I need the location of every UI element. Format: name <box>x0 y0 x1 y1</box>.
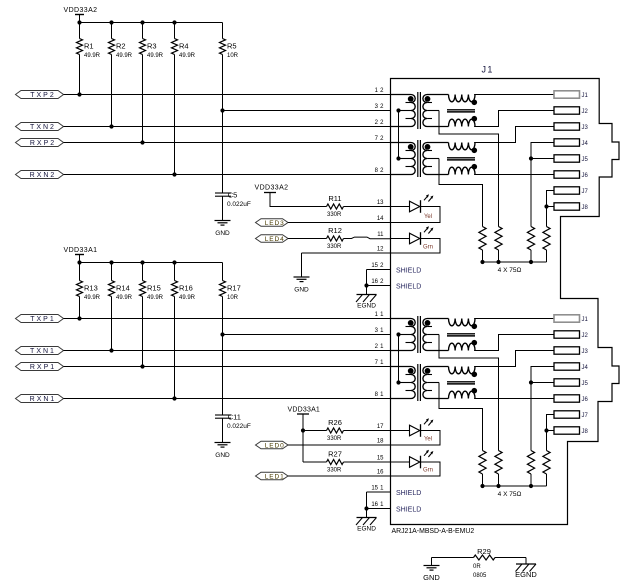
svg-text:Grn: Grn <box>423 468 433 474</box>
svg-text:J3: J3 <box>582 349 589 355</box>
svg-text:LED0: LED0 <box>265 442 285 449</box>
svg-text:J8: J8 <box>582 429 589 435</box>
svg-text:EGND: EGND <box>515 570 537 579</box>
svg-text:49.9R: 49.9R <box>116 295 133 301</box>
svg-text:R5: R5 <box>227 42 237 51</box>
svg-text:J5: J5 <box>582 381 589 387</box>
svg-text:SHIELD: SHIELD <box>396 284 421 291</box>
svg-text:0R: 0R <box>473 564 481 570</box>
svg-text:10R: 10R <box>227 295 239 301</box>
svg-text:R12: R12 <box>328 226 342 235</box>
svg-text:49.9R: 49.9R <box>84 295 101 301</box>
svg-text:LED1: LED1 <box>265 473 285 480</box>
svg-text:SHIELD: SHIELD <box>396 490 421 497</box>
svg-text:49.9R: 49.9R <box>147 295 164 301</box>
svg-text:16 1: 16 1 <box>371 502 384 508</box>
svg-text:J6: J6 <box>582 173 589 179</box>
svg-text:330R: 330R <box>327 244 342 250</box>
svg-text:GND: GND <box>423 573 440 582</box>
svg-text:GND: GND <box>215 452 230 459</box>
svg-text:10R: 10R <box>227 53 239 59</box>
svg-text:Grn: Grn <box>423 245 433 251</box>
svg-text:VDD33A2: VDD33A2 <box>255 185 289 192</box>
svg-text:49.9R: 49.9R <box>116 53 133 59</box>
svg-text:4 X 75Ω: 4 X 75Ω <box>498 267 522 274</box>
svg-text:Yel: Yel <box>424 437 432 443</box>
svg-text:49.9R: 49.9R <box>179 295 196 301</box>
svg-text:LED4: LED4 <box>265 236 285 243</box>
svg-text:SHIELD: SHIELD <box>396 507 421 514</box>
svg-text:14: 14 <box>377 216 384 222</box>
svg-text:LED3: LED3 <box>265 220 285 227</box>
svg-text:0805: 0805 <box>473 573 487 579</box>
svg-text:2 2: 2 2 <box>375 120 385 126</box>
svg-text:EGND: EGND <box>357 303 376 310</box>
svg-text:RXN2: RXN2 <box>30 172 57 179</box>
svg-text:VDD33A1: VDD33A1 <box>64 247 98 254</box>
svg-text:R26: R26 <box>328 418 342 427</box>
svg-text:15 1: 15 1 <box>371 486 384 492</box>
svg-text:16 2: 16 2 <box>371 279 384 285</box>
svg-text:330R: 330R <box>327 436 342 442</box>
svg-text:2 1: 2 1 <box>375 344 385 350</box>
svg-text:ARJ21A-MBSD-A-B-EMU2: ARJ21A-MBSD-A-B-EMU2 <box>392 528 475 535</box>
svg-text:R27: R27 <box>328 450 342 459</box>
svg-text:J4: J4 <box>582 365 589 371</box>
svg-text:EGND: EGND <box>357 526 376 533</box>
svg-text:J7: J7 <box>582 189 589 195</box>
svg-text:C5: C5 <box>228 191 238 200</box>
svg-text:J2: J2 <box>582 109 589 115</box>
svg-text:15 2: 15 2 <box>371 263 384 269</box>
svg-text:17: 17 <box>377 424 384 430</box>
svg-text:49.9R: 49.9R <box>147 53 164 59</box>
svg-text:15: 15 <box>377 456 384 462</box>
svg-text:R29: R29 <box>477 547 491 556</box>
svg-text:R13: R13 <box>84 284 98 293</box>
svg-text:R2: R2 <box>116 42 126 51</box>
svg-text:R17: R17 <box>227 284 241 293</box>
svg-text:16: 16 <box>377 470 384 476</box>
svg-text:J8: J8 <box>582 205 589 211</box>
svg-text:J6: J6 <box>582 397 589 403</box>
svg-text:330R: 330R <box>327 212 342 218</box>
svg-text:7 2: 7 2 <box>375 136 385 142</box>
svg-text:J1: J1 <box>482 65 494 75</box>
svg-text:GND: GND <box>294 287 309 294</box>
svg-text:J4: J4 <box>582 141 589 147</box>
svg-text:R4: R4 <box>179 42 189 51</box>
svg-text:J7: J7 <box>582 413 589 419</box>
svg-text:330R: 330R <box>327 468 342 474</box>
svg-text:R15: R15 <box>147 284 161 293</box>
svg-text:1 1: 1 1 <box>375 312 385 318</box>
svg-text:R3: R3 <box>147 42 157 51</box>
svg-text:TXP1: TXP1 <box>30 316 56 323</box>
svg-text:49.9R: 49.9R <box>179 53 196 59</box>
svg-text:11: 11 <box>377 232 384 238</box>
svg-text:3 1: 3 1 <box>375 328 385 334</box>
svg-text:RXP2: RXP2 <box>30 140 56 147</box>
svg-text:13: 13 <box>377 200 384 206</box>
svg-text:3 2: 3 2 <box>375 104 385 110</box>
svg-text:R14: R14 <box>116 284 130 293</box>
svg-text:TXP2: TXP2 <box>30 92 56 99</box>
svg-text:4 X 75Ω: 4 X 75Ω <box>498 491 522 498</box>
svg-text:49.9R: 49.9R <box>84 53 101 59</box>
svg-text:J1: J1 <box>582 93 589 99</box>
svg-text:RXP1: RXP1 <box>30 364 56 371</box>
svg-text:J2: J2 <box>582 333 589 339</box>
svg-text:J5: J5 <box>582 157 589 163</box>
svg-text:J1: J1 <box>582 317 589 323</box>
svg-text:R16: R16 <box>179 284 193 293</box>
svg-text:SHIELD: SHIELD <box>396 268 421 275</box>
svg-text:12: 12 <box>377 247 384 253</box>
svg-text:7 1: 7 1 <box>375 360 385 366</box>
svg-text:R1: R1 <box>84 42 94 51</box>
svg-text:R11: R11 <box>328 194 341 203</box>
svg-text:C11: C11 <box>228 413 241 422</box>
svg-text:TXN1: TXN1 <box>30 348 56 355</box>
svg-text:VDD33A2: VDD33A2 <box>64 7 98 14</box>
svg-text:18: 18 <box>377 439 384 445</box>
svg-text:8 1: 8 1 <box>375 392 385 398</box>
svg-text:RXN1: RXN1 <box>30 396 57 403</box>
svg-text:VDD33A1: VDD33A1 <box>288 407 321 414</box>
svg-text:0.022uF: 0.022uF <box>227 423 251 430</box>
svg-text:GND: GND <box>215 230 230 237</box>
svg-text:Yel: Yel <box>424 214 432 220</box>
svg-text:J3: J3 <box>582 125 589 131</box>
svg-text:0.022uF: 0.022uF <box>227 201 251 208</box>
svg-text:1 2: 1 2 <box>375 88 385 94</box>
svg-text:TXN2: TXN2 <box>30 124 56 131</box>
svg-text:8 2: 8 2 <box>375 168 385 174</box>
